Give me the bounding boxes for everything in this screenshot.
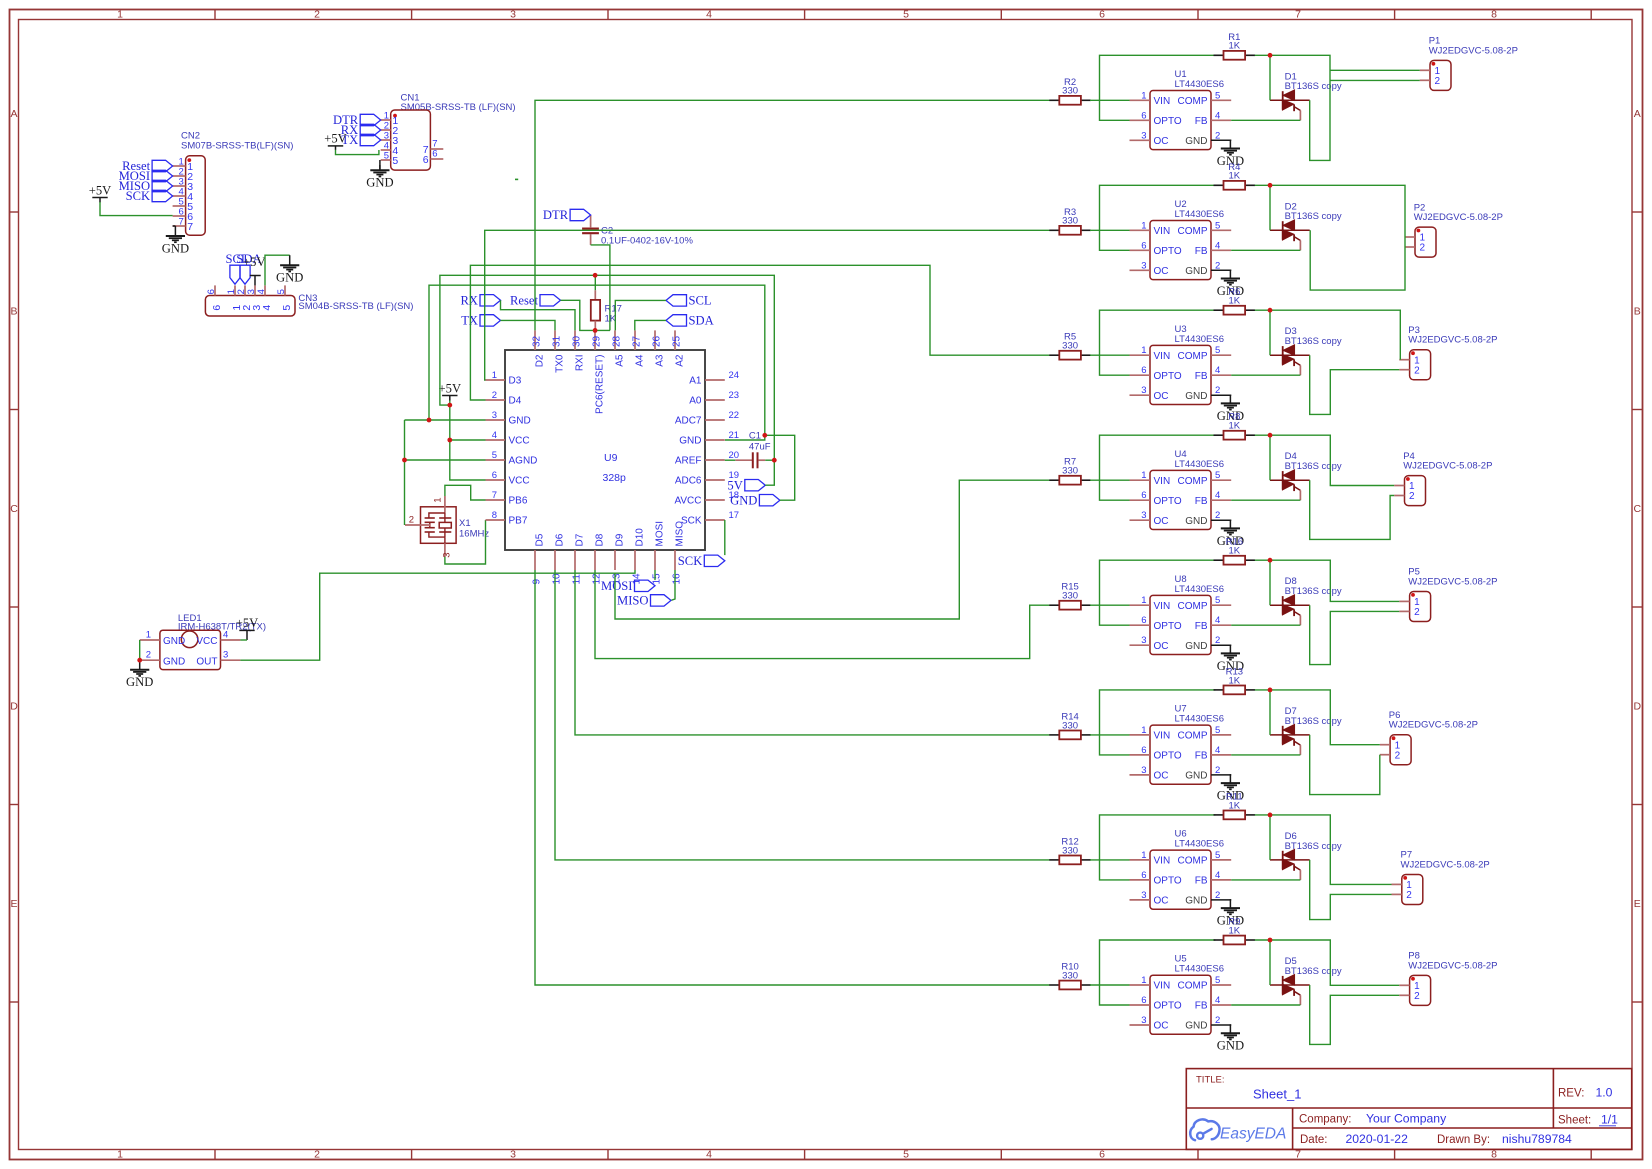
svg-text:1: 1 bbox=[432, 498, 443, 503]
net flag SDA (CN3 pin 2) bbox=[240, 265, 250, 284]
svg-text:15: 15 bbox=[651, 573, 662, 585]
svg-text:2: 2 bbox=[492, 390, 497, 401]
wire AREF to C1 bbox=[725, 459, 736, 461]
svg-text:SM04B-SRSS-TB (LF)(SN): SM04B-SRSS-TB (LF)(SN) bbox=[298, 301, 413, 312]
wire R9 to D5 bbox=[1269, 940, 1271, 985]
net flag 5V (near C1) bbox=[745, 480, 766, 491]
svg-text:TITLE:: TITLE: bbox=[1196, 1075, 1225, 1086]
optocoupler U1 LT4430ES6 bbox=[1130, 69, 1232, 150]
EasyEDA logo bbox=[1190, 1119, 1286, 1142]
svg-text:3: 3 bbox=[1141, 765, 1146, 776]
wire TX to TX0 pin31 bbox=[501, 320, 556, 330]
svg-text:RXI: RXI bbox=[575, 355, 586, 372]
svg-text:5: 5 bbox=[492, 450, 497, 461]
wire D5 pin9 to R10 (ch8) bbox=[535, 570, 1050, 985]
connector P5 WJ2EDGVC-5.08-2P bbox=[1399, 567, 1497, 622]
wire R1K left / OPTO vertical bbox=[1100, 185, 1216, 250]
svg-text:WJ2EDGVC-5.08-2P: WJ2EDGVC-5.08-2P bbox=[1429, 45, 1518, 56]
svg-text:5: 5 bbox=[281, 305, 293, 311]
svg-text:OC: OC bbox=[1154, 641, 1169, 652]
wire C1 right to +5V rail bbox=[765, 459, 774, 461]
optocoupler U7 LT4430ES6 bbox=[1130, 704, 1232, 785]
wire triac to P pin2 bbox=[1310, 480, 1395, 539]
svg-text:AREF: AREF bbox=[675, 456, 702, 467]
svg-text:GND: GND bbox=[276, 271, 303, 285]
svg-text:WJ2EDGVC-5.08-2P: WJ2EDGVC-5.08-2P bbox=[1389, 720, 1478, 731]
svg-text:7: 7 bbox=[187, 221, 193, 233]
net flag SCL (CN3 pin 1) bbox=[230, 265, 240, 284]
svg-text:14: 14 bbox=[631, 573, 642, 585]
svg-text:5: 5 bbox=[1215, 595, 1220, 606]
svg-text:22: 22 bbox=[729, 410, 740, 421]
power +5V (LED1 VCC) bbox=[236, 616, 259, 640]
svg-text:ADC7: ADC7 bbox=[675, 416, 702, 427]
wire LED1 pin1 to pin2 bbox=[139, 640, 141, 660]
ground GND (CN3) bbox=[276, 255, 303, 285]
svg-text:VIN: VIN bbox=[1154, 226, 1171, 237]
svg-text:7: 7 bbox=[179, 217, 184, 228]
svg-text:VIN: VIN bbox=[1154, 731, 1171, 742]
svg-text:5: 5 bbox=[384, 151, 389, 162]
resistor R12 330 bbox=[1049, 836, 1091, 864]
wire FB to D4 gate bbox=[1231, 499, 1300, 501]
svg-text:6: 6 bbox=[1141, 110, 1146, 121]
net flag MISO (CN2 pin 3) bbox=[152, 180, 173, 191]
svg-text:GND: GND bbox=[730, 493, 757, 507]
wire +5V rail up and across to C1 bbox=[440, 275, 774, 485]
wire triac to P pin2 bbox=[1310, 985, 1400, 1044]
svg-text:ADC6: ADC6 bbox=[675, 476, 702, 487]
svg-text:FB: FB bbox=[1195, 496, 1208, 507]
svg-text:6: 6 bbox=[1099, 1149, 1105, 1161]
svg-text:D2: D2 bbox=[535, 354, 546, 367]
svg-text:6: 6 bbox=[1141, 365, 1146, 376]
connector P3 WJ2EDGVC-5.08-2P bbox=[1399, 325, 1497, 380]
triac D3 BT136S bbox=[1270, 326, 1342, 375]
svg-text:1.0: 1.0 bbox=[1596, 1086, 1613, 1100]
svg-text:2: 2 bbox=[1215, 130, 1220, 141]
svg-text:4: 4 bbox=[1215, 870, 1220, 881]
svg-text:OPTO: OPTO bbox=[1154, 371, 1182, 382]
wire R1K left / OPTO vertical bbox=[1100, 310, 1216, 375]
svg-text:GND: GND bbox=[509, 416, 531, 427]
svg-text:3: 3 bbox=[1141, 130, 1146, 141]
svg-text:FB: FB bbox=[1195, 371, 1208, 382]
svg-text:6: 6 bbox=[1141, 240, 1146, 251]
ground GND (U7) bbox=[1217, 775, 1244, 803]
svg-text:B: B bbox=[10, 305, 17, 317]
resistor R4 1K bbox=[1214, 162, 1256, 190]
svg-text:6: 6 bbox=[1141, 995, 1146, 1006]
svg-text:FB: FB bbox=[1195, 1001, 1208, 1012]
svg-text:1: 1 bbox=[1141, 850, 1146, 861]
svg-text:MOSI: MOSI bbox=[655, 521, 666, 547]
resistor R1 1K bbox=[1214, 32, 1256, 60]
svg-text:C: C bbox=[10, 503, 18, 515]
svg-text:GND: GND bbox=[162, 241, 189, 255]
wire Reset to pin29 node bbox=[561, 300, 611, 330]
svg-text:2: 2 bbox=[409, 515, 414, 526]
wire R1K to P loop bbox=[1255, 185, 1405, 290]
svg-text:5: 5 bbox=[903, 1149, 909, 1161]
wire D2 pin32 to R2 (ch1) bbox=[535, 100, 1050, 330]
svg-text:7: 7 bbox=[492, 490, 497, 501]
svg-text:330: 330 bbox=[1062, 341, 1078, 352]
wire R15 to VIN bbox=[1090, 604, 1130, 606]
svg-text:330: 330 bbox=[1062, 86, 1078, 97]
svg-text:3: 3 bbox=[442, 553, 453, 558]
svg-text:8: 8 bbox=[1491, 1149, 1497, 1161]
svg-text:2: 2 bbox=[1414, 607, 1420, 618]
wire D8 pin12 to R15 (ch5) bbox=[595, 570, 1050, 659]
wire MISO pin16 bbox=[672, 570, 676, 600]
capacitor C2 0.1UF bbox=[582, 215, 693, 247]
connector P6 WJ2EDGVC-5.08-2P bbox=[1380, 710, 1478, 765]
svg-text:330: 330 bbox=[1062, 845, 1078, 856]
svg-text:5: 5 bbox=[1215, 470, 1220, 481]
svg-text:Date:: Date: bbox=[1300, 1134, 1328, 1146]
svg-text:1: 1 bbox=[1141, 595, 1146, 606]
svg-text:4: 4 bbox=[1215, 745, 1220, 756]
svg-text:COMP: COMP bbox=[1178, 476, 1208, 487]
svg-text:2: 2 bbox=[314, 1149, 320, 1161]
svg-text:2: 2 bbox=[146, 650, 151, 661]
wire R2 to VIN bbox=[1090, 99, 1130, 101]
svg-text:TX: TX bbox=[461, 314, 478, 328]
resistor R9 1K bbox=[1214, 917, 1256, 945]
power +5V (MCU) bbox=[439, 381, 462, 400]
wire R8 to D4 bbox=[1269, 435, 1271, 480]
svg-text:4: 4 bbox=[261, 305, 273, 311]
net flag Reset (CN2 pin 1) bbox=[152, 160, 173, 171]
wire R1K to P pin1 bbox=[1255, 940, 1400, 985]
svg-text:Sheet_1: Sheet_1 bbox=[1253, 1087, 1301, 1102]
svg-text:COMP: COMP bbox=[1178, 731, 1208, 742]
net flag Reset (MCU) bbox=[540, 295, 561, 306]
svg-text:Company:: Company: bbox=[1299, 1114, 1351, 1126]
net flag GND (near C1) bbox=[759, 495, 780, 506]
title block bbox=[1186, 1069, 1631, 1150]
wire CN3 pin 4 to GND bbox=[265, 255, 290, 285]
net flag SCK (MCU right) bbox=[704, 555, 725, 566]
svg-text:FB: FB bbox=[1195, 876, 1208, 887]
wire R3 to VIN bbox=[1090, 229, 1130, 231]
optocoupler U4 LT4430ES6 bbox=[1130, 449, 1232, 530]
ground GND (U1) bbox=[1217, 140, 1244, 168]
svg-text:2: 2 bbox=[1215, 1015, 1220, 1026]
svg-text:A5: A5 bbox=[615, 354, 626, 367]
svg-text:LT4430ES6: LT4430ES6 bbox=[1175, 584, 1224, 595]
svg-text:5: 5 bbox=[1215, 220, 1220, 231]
svg-text:6: 6 bbox=[1141, 615, 1146, 626]
wire R17 top to +5V rail bbox=[594, 275, 596, 290]
svg-text:GND: GND bbox=[1217, 1039, 1244, 1053]
svg-text:3: 3 bbox=[1141, 260, 1146, 271]
wire R5 to VIN bbox=[1090, 354, 1130, 356]
wire C2 to reset node bbox=[591, 245, 610, 331]
svg-text:7: 7 bbox=[1295, 9, 1301, 21]
svg-text:VIN: VIN bbox=[1154, 856, 1171, 867]
svg-text:EasyEDA: EasyEDA bbox=[1220, 1126, 1286, 1143]
svg-text:17: 17 bbox=[729, 510, 740, 521]
svg-text:330: 330 bbox=[1062, 466, 1078, 477]
svg-text:2: 2 bbox=[1409, 491, 1415, 502]
resistor R16 1K bbox=[1214, 537, 1256, 565]
svg-text:5: 5 bbox=[1215, 725, 1220, 736]
svg-text:DTR: DTR bbox=[543, 208, 569, 222]
ground GND (LED1) bbox=[126, 660, 153, 689]
svg-text:31: 31 bbox=[551, 335, 562, 347]
resistor R3 330 bbox=[1049, 207, 1091, 235]
wire MOSI pin15 bbox=[654, 570, 656, 580]
wire +5V rail to VCC pins bbox=[450, 401, 486, 481]
wire R1K left / OPTO vertical bbox=[1100, 55, 1216, 120]
svg-text:1: 1 bbox=[1141, 345, 1146, 356]
svg-text:PC6(RESET): PC6(RESET) bbox=[595, 355, 606, 414]
svg-text:+5V: +5V bbox=[324, 132, 347, 146]
triac D7 BT136S bbox=[1270, 706, 1342, 755]
svg-text:SCL: SCL bbox=[689, 294, 712, 308]
svg-text:OC: OC bbox=[1154, 136, 1169, 147]
optocoupler U6 LT4430ES6 bbox=[1130, 829, 1232, 910]
svg-text:D6: D6 bbox=[555, 533, 566, 546]
wire R1K left / OPTO vertical bbox=[1100, 560, 1216, 625]
triac D5 BT136S bbox=[1270, 956, 1342, 1005]
connector CN2 bbox=[173, 131, 294, 236]
svg-text:23: 23 bbox=[729, 390, 740, 401]
svg-text:1K: 1K bbox=[1228, 675, 1240, 686]
wire D6 pin10 to R12 (ch7) bbox=[555, 570, 1050, 860]
triac D6 BT136S bbox=[1270, 831, 1342, 880]
svg-text:1: 1 bbox=[492, 370, 497, 381]
svg-text:11: 11 bbox=[571, 574, 582, 585]
wire R4 to D2 bbox=[1269, 185, 1271, 230]
net flag RX (MCU) bbox=[480, 295, 501, 306]
svg-text:D3: D3 bbox=[509, 376, 522, 387]
resistor R2 330 bbox=[1049, 77, 1091, 105]
svg-text:WJ2EDGVC-5.08-2P: WJ2EDGVC-5.08-2P bbox=[1401, 859, 1490, 870]
svg-text:OPTO: OPTO bbox=[1154, 246, 1182, 257]
wire R10 to VIN bbox=[1090, 984, 1130, 986]
svg-text:6: 6 bbox=[1099, 9, 1105, 21]
svg-text:D4: D4 bbox=[509, 396, 522, 407]
svg-text:COMP: COMP bbox=[1178, 351, 1208, 362]
svg-text:nishu789784: nishu789784 bbox=[1502, 1132, 1572, 1146]
svg-text:LT4430ES6: LT4430ES6 bbox=[1175, 79, 1224, 90]
svg-text:328p: 328p bbox=[603, 472, 627, 484]
IR receiver LED1 bbox=[140, 613, 266, 670]
svg-text:LT4430ES6: LT4430ES6 bbox=[1175, 334, 1224, 345]
wire R13 to D7 bbox=[1269, 690, 1271, 735]
net flag SCK (CN2 pin 4) bbox=[152, 190, 173, 201]
svg-text:6: 6 bbox=[432, 149, 437, 160]
wire SCK pin17 bbox=[724, 520, 726, 555]
wire PB6 to X1 pin1 bbox=[445, 485, 486, 500]
svg-text:A0: A0 bbox=[689, 396, 702, 407]
net flag TX (CN1 pin 3) bbox=[360, 134, 381, 145]
svg-text:REV:: REV: bbox=[1558, 1088, 1584, 1100]
svg-text:TX0: TX0 bbox=[555, 354, 566, 373]
svg-text:2: 2 bbox=[1414, 991, 1420, 1002]
svg-text:OPTO: OPTO bbox=[1154, 621, 1182, 632]
svg-text:VCC: VCC bbox=[509, 476, 530, 487]
svg-text:3: 3 bbox=[1141, 635, 1146, 646]
resistor R11 1K bbox=[1214, 791, 1256, 819]
svg-text:SM07B-SRSS-TB(LF)(SN): SM07B-SRSS-TB(LF)(SN) bbox=[181, 140, 293, 151]
svg-text:OPTO: OPTO bbox=[1154, 876, 1182, 887]
svg-text:330: 330 bbox=[1062, 970, 1078, 981]
svg-text:WJ2EDGVC-5.08-2P: WJ2EDGVC-5.08-2P bbox=[1403, 461, 1492, 472]
svg-text:VIN: VIN bbox=[1154, 351, 1171, 362]
svg-text:OC: OC bbox=[1154, 771, 1169, 782]
svg-text:LT4430ES6: LT4430ES6 bbox=[1175, 209, 1224, 220]
svg-text:COMP: COMP bbox=[1178, 226, 1208, 237]
wire R1K left / OPTO vertical bbox=[1100, 815, 1216, 880]
svg-text:WJ2EDGVC-5.08-2P: WJ2EDGVC-5.08-2P bbox=[1408, 335, 1497, 346]
svg-text:2020-01-22: 2020-01-22 bbox=[1346, 1132, 1409, 1146]
svg-text:6: 6 bbox=[1141, 745, 1146, 756]
wire R16 to D8 bbox=[1269, 560, 1271, 605]
svg-text:A3: A3 bbox=[655, 354, 666, 367]
power +5V (CN1) bbox=[324, 132, 347, 150]
svg-text:4: 4 bbox=[256, 289, 267, 294]
svg-text:OPTO: OPTO bbox=[1154, 496, 1182, 507]
svg-text:5: 5 bbox=[276, 289, 287, 294]
wire D7 pin11 to R14 (ch6) bbox=[575, 570, 1050, 735]
svg-text:4: 4 bbox=[706, 1149, 712, 1161]
wire R1K to P pin1 bbox=[1255, 690, 1380, 745]
svg-text:3: 3 bbox=[1141, 1015, 1146, 1026]
wire SDA to A4 pin27 bbox=[635, 320, 666, 330]
wire triac to P pin2 bbox=[1310, 860, 1392, 920]
resistor R8 1K bbox=[1214, 412, 1256, 440]
svg-text:2: 2 bbox=[1215, 635, 1220, 646]
svg-text:Drawn By:: Drawn By: bbox=[1437, 1134, 1490, 1146]
svg-text:GND: GND bbox=[1185, 1021, 1207, 1032]
wire R14 to VIN bbox=[1090, 734, 1130, 736]
wire R1K left / OPTO vertical bbox=[1100, 940, 1216, 1005]
svg-text:27: 27 bbox=[631, 335, 642, 347]
svg-text:LT4430ES6: LT4430ES6 bbox=[1175, 459, 1224, 470]
svg-text:WJ2EDGVC-5.08-2P: WJ2EDGVC-5.08-2P bbox=[1408, 576, 1497, 587]
svg-text:5: 5 bbox=[903, 9, 909, 21]
svg-text:FB: FB bbox=[1195, 246, 1208, 257]
svg-text:6: 6 bbox=[423, 154, 429, 166]
wire triac to P pin2 bbox=[1310, 735, 1380, 795]
net flag MOSI (CN2 pin 2) bbox=[152, 170, 173, 181]
svg-text:GND: GND bbox=[163, 656, 185, 667]
svg-text:26: 26 bbox=[651, 335, 662, 347]
svg-text:VIN: VIN bbox=[1154, 96, 1171, 107]
svg-text:COMP: COMP bbox=[1178, 981, 1208, 992]
wire LED1 OUT to D10 net bbox=[240, 573, 615, 660]
svg-text:4: 4 bbox=[492, 430, 497, 441]
svg-text:SCK: SCK bbox=[678, 554, 703, 568]
svg-text:PB7: PB7 bbox=[509, 516, 528, 527]
connector P7 WJ2EDGVC-5.08-2P bbox=[1392, 850, 1490, 905]
svg-text:6: 6 bbox=[1141, 870, 1146, 881]
svg-text:330: 330 bbox=[1062, 591, 1078, 602]
resistor R17 1K bbox=[591, 290, 622, 330]
svg-text:+5V: +5V bbox=[439, 381, 462, 395]
svg-text:1/1: 1/1 bbox=[1601, 1113, 1618, 1127]
svg-text:16: 16 bbox=[671, 573, 682, 585]
svg-text:5: 5 bbox=[1215, 90, 1220, 101]
svg-text:1: 1 bbox=[117, 1149, 123, 1161]
svg-text:4: 4 bbox=[223, 630, 228, 641]
svg-text:E: E bbox=[10, 898, 17, 910]
svg-text:OC: OC bbox=[1154, 266, 1169, 277]
svg-text:4: 4 bbox=[1215, 995, 1220, 1006]
svg-text:4: 4 bbox=[706, 9, 712, 21]
svg-text:A2: A2 bbox=[675, 354, 686, 367]
triac D2 BT136S bbox=[1270, 201, 1342, 250]
svg-text:OC: OC bbox=[1154, 1021, 1169, 1032]
wire LED1 VCC stub bbox=[240, 639, 247, 641]
wire GND rail to GND flag bbox=[765, 435, 795, 500]
svg-text:COMP: COMP bbox=[1178, 96, 1208, 107]
optocoupler U2 LT4430ES6 bbox=[1130, 199, 1232, 280]
svg-text:+5V: +5V bbox=[236, 616, 259, 630]
optocoupler U3 LT4430ES6 bbox=[1130, 324, 1232, 405]
svg-text:2: 2 bbox=[1395, 750, 1401, 761]
wire FB to D7 gate bbox=[1231, 754, 1300, 756]
svg-text:SCK: SCK bbox=[126, 189, 151, 203]
svg-text:4: 4 bbox=[1215, 615, 1220, 626]
wire R11 to D6 bbox=[1269, 815, 1271, 860]
svg-text:2: 2 bbox=[1406, 890, 1412, 901]
net flag TX (MCU) bbox=[480, 315, 501, 326]
svg-text:32: 32 bbox=[531, 335, 542, 347]
svg-text:2: 2 bbox=[1435, 76, 1441, 87]
svg-text:6: 6 bbox=[211, 305, 223, 311]
svg-text:VCC: VCC bbox=[196, 636, 217, 647]
svg-text:6: 6 bbox=[1141, 490, 1146, 501]
svg-text:1: 1 bbox=[1141, 725, 1146, 736]
svg-text:9: 9 bbox=[531, 579, 542, 585]
svg-text:2: 2 bbox=[1414, 365, 1420, 376]
svg-text:D: D bbox=[1634, 700, 1642, 712]
svg-text:D9: D9 bbox=[615, 533, 626, 546]
wire X1 pin3 to PB7 bbox=[445, 520, 486, 564]
svg-text:WJ2EDGVC-5.08-2P: WJ2EDGVC-5.08-2P bbox=[1408, 960, 1497, 971]
wire RX to RXI pin30 bbox=[501, 300, 576, 330]
wire triac to P pin2 bbox=[1310, 355, 1400, 414]
svg-text:8: 8 bbox=[492, 510, 497, 521]
svg-text:GND: GND bbox=[679, 436, 701, 447]
wire FB to D8 gate bbox=[1231, 624, 1300, 626]
svg-text:330: 330 bbox=[1062, 720, 1078, 731]
svg-text:2: 2 bbox=[1215, 260, 1220, 271]
wire R12 to VIN bbox=[1090, 859, 1130, 861]
svg-text:RX: RX bbox=[461, 294, 479, 308]
svg-text:6: 6 bbox=[206, 289, 217, 294]
svg-text:SDA: SDA bbox=[689, 314, 714, 328]
resistor R15 330 bbox=[1049, 582, 1091, 610]
net flag RX (CN1 pin 2) bbox=[360, 124, 381, 135]
crystal X1 16MHz bbox=[405, 496, 489, 558]
resistor R14 330 bbox=[1049, 711, 1091, 739]
svg-text:VIN: VIN bbox=[1154, 981, 1171, 992]
svg-text:VIN: VIN bbox=[1154, 476, 1171, 487]
wire GND rail up and across bbox=[429, 285, 765, 440]
connector CN3 bbox=[205, 285, 413, 316]
wire R1K to P loop bbox=[1255, 55, 1330, 160]
svg-text:7: 7 bbox=[1295, 1149, 1301, 1161]
ground GND (U8) bbox=[1217, 645, 1244, 673]
ground GND (CN2 pin 7) bbox=[162, 226, 189, 255]
wire R7 to VIN bbox=[1090, 479, 1130, 481]
